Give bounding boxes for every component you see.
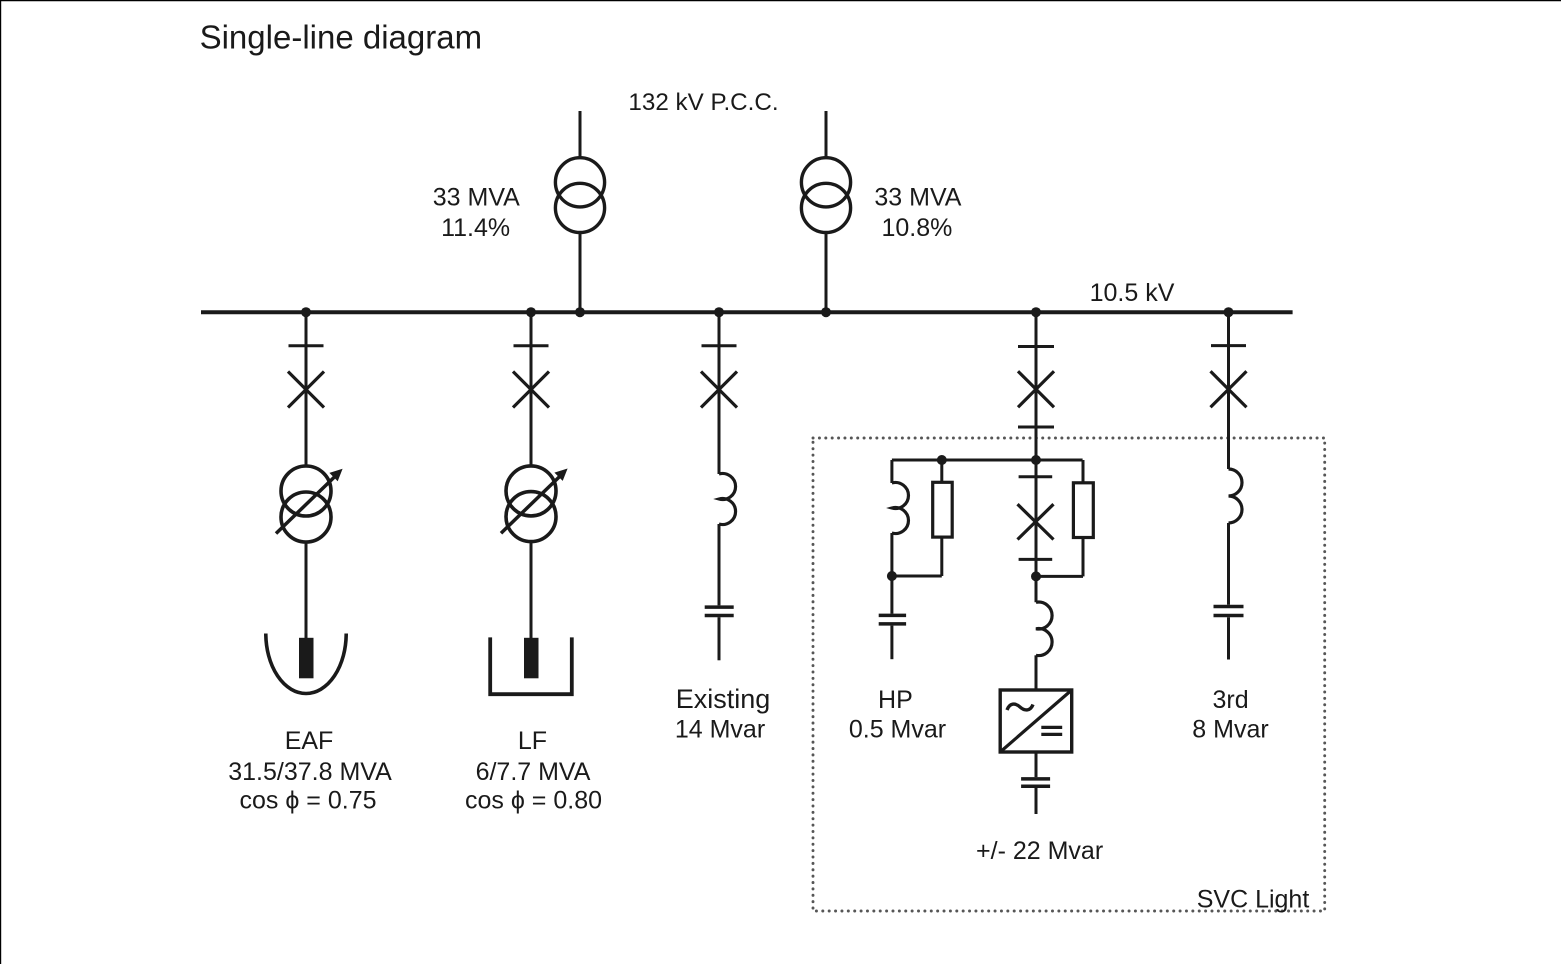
svg-text:132 kV P.C.C.: 132 kV P.C.C. [628, 89, 778, 116]
feeder Existing 14 Mvar [701, 307, 737, 660]
wire HP inductor leg lower [890, 533, 893, 576]
converter DC bars [1041, 726, 1062, 729]
furnace transformer LF arrow [501, 474, 562, 533]
svg-text:+/- 22 Mvar: +/- 22 Mvar [976, 837, 1103, 865]
svg-text:0.5 Mvar: 0.5 Mvar [849, 716, 946, 744]
wire T1 to bus [579, 233, 582, 313]
transformer T1 33 MVA 11.4% [555, 111, 604, 317]
disconnect tick EAF [289, 344, 324, 347]
furnace transformer EAF circles [281, 466, 331, 516]
wire HP bottom connector [892, 575, 942, 578]
bus 10.5 kV [201, 310, 1293, 314]
wire converter to capacitor [1035, 752, 1038, 777]
wire Existing mid [718, 524, 721, 605]
junction T2-bus [821, 307, 831, 317]
breaker X SVC [1018, 371, 1054, 407]
junction EAF-bus [301, 307, 311, 317]
junction SVC-bus [1031, 307, 1041, 317]
feeder SVC main [1018, 307, 1054, 460]
svg-text:Single-line diagram: Single-line diagram [200, 19, 482, 56]
svg-text:3rd: 3rd [1213, 686, 1249, 714]
transformer T2 33 MVA 10.8% [801, 111, 850, 317]
wire damping resistor leg lower [1082, 538, 1085, 577]
capacitor DC [1021, 777, 1050, 781]
junction T1-bus [575, 307, 585, 317]
svg-text:33 MVA: 33 MVA [433, 184, 520, 212]
wire to converter [1035, 655, 1038, 690]
svg-text:11.4%: 11.4% [441, 214, 510, 242]
svg-text:SVC Light: SVC Light [1197, 886, 1310, 914]
capacitor HP [879, 614, 906, 618]
wire EAF to furnace [305, 542, 308, 640]
frame edge left [0, 0, 2, 964]
svg-text:10.8%: 10.8% [881, 214, 952, 242]
capacitor Existing [705, 605, 734, 609]
wire damping bottom connector [1036, 575, 1083, 578]
reactor phase [1036, 602, 1052, 656]
TCR valve branch [1000, 460, 1093, 814]
resistor HP [933, 482, 953, 537]
svg-text:LF: LF [518, 727, 547, 755]
furnace EAF arc vessel [266, 634, 346, 694]
disconnect tick LF [514, 344, 549, 347]
capacitor 3rd [1214, 605, 1244, 609]
furnace transformer LF circles [506, 466, 556, 516]
junction internal bus - HP resistor [937, 455, 947, 465]
wire LF to ladle [530, 542, 533, 640]
breaker X LF [513, 372, 549, 408]
svg-text:cos ϕ = 0.75: cos ϕ = 0.75 [240, 787, 377, 815]
wire T2 incoming [825, 111, 828, 158]
reactor HP [892, 483, 909, 534]
furnace transformer EAF arrow [276, 475, 337, 534]
svg-text:6/7.7 MVA: 6/7.7 MVA [476, 758, 591, 786]
disconnect tick valve lower [1019, 558, 1053, 561]
ladle LF vessel [490, 637, 572, 694]
junction 3rd-bus [1224, 307, 1234, 317]
junction internal bus - main [1031, 455, 1041, 465]
disconnect tick Existing [702, 344, 737, 347]
wire LF feeder upper [530, 312, 533, 466]
HP filter branch [879, 460, 953, 659]
breaker X 3rd [1211, 371, 1247, 407]
SVC internal bus [892, 459, 1083, 462]
wire EAF feeder upper [305, 312, 308, 466]
wire Existing lower stub [718, 617, 721, 660]
electrode LF [524, 638, 539, 679]
svg-text:EAF: EAF [285, 727, 334, 755]
wire T2 to bus [825, 233, 828, 313]
svg-text:cos ϕ = 0.80: cos ϕ = 0.80 [465, 787, 602, 815]
resistor damping [1073, 483, 1093, 538]
wire HP resistor leg lower [940, 537, 943, 576]
svg-text:8 Mvar: 8 Mvar [1192, 716, 1268, 744]
frame edge top [0, 0, 1561, 2]
converter VSC box [1000, 690, 1071, 752]
svg-text:14 Mvar: 14 Mvar [675, 716, 765, 744]
reactor 3rd [1229, 469, 1243, 523]
wire valve [1035, 460, 1038, 602]
junction HP bottom [887, 571, 897, 581]
svg-text:10.5 kV: 10.5 kV [1090, 279, 1175, 307]
breaker X Existing [701, 372, 737, 408]
junction valve bottom [1031, 571, 1041, 581]
wire HP to capacitor [890, 576, 893, 614]
breaker X EAF [288, 372, 324, 408]
junction Existing-bus [714, 307, 724, 317]
disconnect tick SVC lower [1018, 426, 1054, 429]
wire DC lower stub [1035, 788, 1038, 814]
wire damping resistor leg upper [1082, 460, 1085, 483]
wire HP lower stub [890, 626, 893, 660]
wire 3rd upper [1227, 312, 1230, 469]
svg-text:33 MVA: 33 MVA [874, 184, 961, 212]
svg-text:31.5/37.8 MVA: 31.5/37.8 MVA [228, 758, 392, 786]
disconnect tick valve upper [1019, 475, 1053, 478]
disconnect tick SVC upper [1018, 345, 1054, 348]
wire Existing upper [718, 312, 721, 474]
feeder 3rd harmonic [1211, 307, 1247, 659]
disconnect tick 3rd [1211, 344, 1246, 347]
valve X [1018, 504, 1054, 539]
converter diagonal [1000, 690, 1071, 752]
wire HP inductor leg upper [890, 460, 893, 483]
transformer T2 circles [801, 158, 850, 207]
electrode EAF [299, 638, 314, 679]
wire T1 incoming [579, 111, 582, 158]
reactor Existing [719, 474, 736, 525]
wire HP resistor leg upper [940, 460, 943, 482]
junction LF-bus [526, 307, 536, 317]
wire 3rd mid [1227, 523, 1230, 605]
wire SVC upper [1035, 312, 1038, 460]
feeder EAF [266, 307, 346, 693]
svg-text:Existing: Existing [676, 684, 771, 714]
svg-text:HP: HP [878, 686, 913, 714]
SVC Light dotted enclosure [813, 438, 1325, 911]
converter AC tilde [1007, 704, 1033, 710]
feeder LF [490, 307, 572, 694]
wire 3rd lower stub [1227, 617, 1230, 659]
transformer T1 circles [555, 158, 604, 207]
